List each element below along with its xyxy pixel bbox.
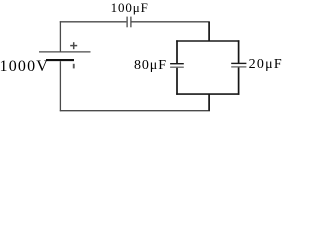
wire bottom side (outer loop) [60, 110, 210, 112]
label C1 value 100uF [111, 1, 149, 14]
wire right feed from top (thick) [208, 22, 210, 41]
battery B1 negative plate [46, 59, 74, 61]
wire left side lower [59, 61, 61, 111]
wire parallel-block top rail [176, 40, 239, 42]
wire junction drop to bottom side (thick) [208, 94, 210, 111]
capacitor C3 20uF top plate [231, 62, 246, 64]
label C3 value 20uF [249, 58, 283, 72]
wire top side (outer loop) [60, 21, 210, 23]
battery B1 positive plate [39, 51, 91, 53]
label C2 value 80uF [134, 59, 167, 73]
capacitor C3 20uF bottom plate [231, 66, 246, 68]
wire parallel-block bottom rail [176, 93, 239, 95]
capacitor C2 80uF bottom plate [170, 66, 184, 68]
capacitor C1 100uF plates [127, 17, 131, 28]
wire left side upper [59, 21, 61, 51]
wire C3 branch upper lead [238, 40, 240, 63]
label source value 1000V [0, 59, 49, 75]
wire C2 branch lower lead [176, 68, 178, 95]
wire C2 branch upper lead [176, 40, 178, 63]
battery plus sign [70, 42, 77, 49]
capacitor C2 80uF top plate [170, 63, 184, 65]
wire C3 branch lower lead [238, 68, 240, 95]
battery minus mark [73, 64, 75, 69]
